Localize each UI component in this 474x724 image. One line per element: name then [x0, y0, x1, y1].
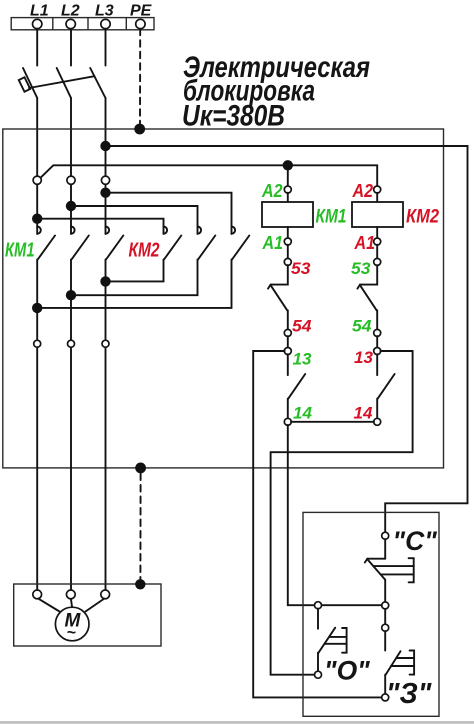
contact KM2 pole 1 blade — [164, 236, 181, 260]
coil KM1 A2 terminal — [284, 186, 291, 193]
contact KM2 NO 14 terminal right — [374, 418, 381, 425]
wire 14 to 14 link — [291, 421, 374, 423]
wire KM2 pole 1 output crossover — [106, 260, 164, 282]
switch QS pole 3 blade — [90, 68, 105, 98]
contact KM1 NC 53 terminal right — [374, 258, 381, 265]
svg-text:54: 54 — [292, 317, 312, 336]
wire PE dashed cabinet to motor — [139, 474, 141, 581]
svg-text:14: 14 — [293, 404, 312, 423]
wire L1 terminal to switch — [36, 29, 38, 66]
wire KM1 pole 3 output — [105, 260, 107, 591]
node L1 branch to KM2 — [32, 214, 42, 224]
wire right 13 to button О — [271, 351, 413, 675]
push button station box — [303, 512, 439, 716]
wire coil KM1 to A1 — [287, 227, 289, 238]
terminal circle L2 — [66, 19, 75, 28]
motor terminal W — [101, 590, 110, 599]
contact KM2 pole 3 seat — [232, 227, 236, 234]
wire 54 to 13 left — [287, 336, 289, 348]
switch QS pole 2 blade — [57, 68, 71, 98]
svg-text:"С": "С" — [393, 526, 438, 556]
button З plunger — [391, 651, 414, 675]
outgoing terminal circle L3 — [102, 340, 109, 347]
svg-text:"О": "О" — [324, 656, 370, 686]
wire KM1 pole 1 output — [36, 260, 38, 591]
svg-text:PE: PE — [130, 3, 153, 20]
node KM2 pole3 to L1 — [32, 303, 42, 313]
coil KM2 box — [352, 202, 403, 227]
wire KM2 pole 3 output crossover — [37, 260, 231, 308]
wire C bottom to З top — [384, 609, 386, 625]
contact KM1 NO blade left column — [288, 354, 305, 418]
svg-text:А2: А2 — [261, 181, 282, 201]
contact KM1 pole 3 seat — [106, 227, 110, 234]
cabinet enclosure box — [3, 129, 444, 468]
wire C bottom to O top — [321, 604, 382, 606]
contact KM1 pole 2 top circle — [67, 176, 75, 184]
svg-text:А2: А2 — [352, 181, 373, 201]
contact KM1 pole 3 top circle — [101, 176, 109, 184]
wire L2 to KM2 pole 2 — [71, 206, 198, 234]
switch QS handle — [19, 77, 30, 91]
svg-text:КМ1: КМ1 — [5, 240, 35, 262]
wire A1 to 53 left — [287, 245, 289, 259]
contact KM2 NC blade left column — [268, 265, 288, 330]
button O plunger — [325, 628, 347, 653]
bottom scan artifact line — [0, 721, 474, 724]
contact KM2 NO 13 terminal right — [374, 348, 381, 355]
wire coil KM1 A2 drop — [287, 165, 289, 186]
PE junction dot on cabinet top — [134, 124, 145, 135]
contact KM2 pole 2 seat — [198, 227, 202, 234]
svg-text:L2: L2 — [61, 3, 80, 20]
terminal circle PE — [136, 19, 145, 28]
node KM2 pole2 to L2 — [66, 290, 76, 300]
PE junction dot on cabinet bottom — [135, 463, 146, 474]
wire motor terminal V to motor — [71, 599, 72, 608]
contact KM2 pole 3 blade — [232, 236, 249, 260]
wire L3 control feed to buttons — [106, 146, 468, 532]
wire L3 circle to contact — [105, 184, 107, 234]
button C NC contact — [365, 539, 385, 602]
switch QS pole 1 blade — [23, 68, 37, 98]
button O NO contact — [318, 609, 335, 672]
wire L3 terminal to switch — [105, 29, 107, 66]
node L3 branch to KM2 — [100, 188, 110, 198]
terminal circle L1 — [33, 19, 42, 28]
wire 54 to 13 right — [376, 336, 378, 348]
svg-text:А1: А1 — [354, 233, 375, 253]
wire motor terminal W to motor — [86, 599, 105, 612]
switch QS linkage bar — [29, 76, 95, 88]
svg-text:~: ~ — [67, 625, 77, 642]
contact KM2 pole 2 blade — [198, 236, 215, 260]
terminal circle L3 — [101, 19, 110, 28]
wire KM2 pole 2 output crossover — [71, 260, 198, 296]
outgoing terminal circle L1 — [34, 340, 41, 347]
contact KM2 pole 1 seat — [164, 227, 168, 234]
coil KM2 A2 terminal — [374, 186, 381, 193]
contact KM2 NC 53 terminal left — [284, 258, 291, 265]
svg-text:КМ2: КМ2 — [406, 207, 439, 228]
wire PE dashed to cabinet — [139, 29, 141, 125]
wire L1 branch to coils — [40, 165, 377, 186]
wire L1 to KM2 pole 1 — [37, 219, 163, 234]
wire left 13 to button З — [253, 351, 382, 697]
wire A2 to coil KM1 — [287, 193, 289, 202]
button O terminal top — [315, 602, 322, 609]
motor M circle — [55, 607, 89, 641]
wire L2 terminal to switch — [70, 29, 72, 66]
terminal strip X1 — [11, 18, 154, 30]
wire L3 to KM2 pole 3 — [106, 193, 232, 234]
svg-text:53: 53 — [291, 259, 311, 278]
contact KM1 pole 1 top circle — [33, 176, 41, 184]
coil KM1 A1 terminal — [284, 238, 291, 245]
wire L1 circle to contact — [36, 184, 38, 234]
outgoing terminal circle L2 — [68, 340, 75, 347]
motor enclosure box — [14, 584, 161, 646]
button C terminal top — [382, 532, 389, 539]
wire L3 switch to KM1 — [105, 98, 107, 177]
wire KM1 pole 2 output — [70, 260, 72, 591]
svg-text:13: 13 — [293, 350, 312, 369]
contact KM1 pole 2 blade — [72, 236, 89, 260]
PE junction dot on motor box — [135, 579, 145, 589]
contact KM1 NO 14 terminal left — [284, 418, 291, 425]
motor terminal U — [33, 590, 42, 599]
button З terminal top — [382, 624, 389, 631]
button З terminal bottom — [382, 694, 389, 701]
svg-text:КМ1: КМ1 — [316, 207, 347, 228]
contact KM1 pole 3 blade — [106, 236, 123, 260]
wire A1 to 53 right — [376, 245, 378, 259]
svg-text:А1: А1 — [262, 233, 283, 253]
wire L2 switch to KM1 — [70, 98, 72, 177]
button C terminal bottom — [382, 602, 389, 609]
button O terminal bottom — [315, 671, 322, 678]
wire coil KM2 to A1 — [376, 227, 378, 238]
svg-text:"З": "З" — [386, 678, 432, 710]
contact KM2 NC 54 terminal left — [284, 329, 291, 336]
wire motor terminal U to motor — [38, 599, 59, 612]
contact KM1 pole 1 seat — [37, 227, 41, 234]
svg-text:L1: L1 — [30, 3, 49, 20]
contact KM1 pole 1 blade — [38, 236, 55, 260]
node L2 branch to KM2 — [66, 201, 76, 211]
svg-text:L3: L3 — [95, 3, 114, 20]
contact KM1 NO 13 terminal left — [284, 348, 291, 355]
svg-text:Uк=380В: Uк=380В — [182, 100, 285, 133]
wire left 14 to stop button — [288, 425, 315, 605]
button C plunger — [374, 558, 414, 582]
node coil feed junction — [283, 160, 293, 170]
coil KM2 A1 terminal — [374, 238, 381, 245]
contact KM1 NC 54 terminal right — [374, 329, 381, 336]
node KM2 pole1 to L3 — [100, 276, 110, 286]
wire L2 circle to contact — [70, 184, 72, 234]
node L3 control branch — [100, 141, 110, 151]
contact KM1 pole 2 seat — [71, 227, 75, 234]
svg-text:53: 53 — [351, 259, 371, 278]
svg-text:КМ2: КМ2 — [129, 240, 160, 262]
contact KM1 NC blade right column — [357, 265, 377, 330]
svg-text:14: 14 — [354, 404, 373, 423]
wire A2 to coil KM2 — [376, 193, 378, 202]
wire L1 switch to KM1 — [36, 98, 38, 177]
motor terminal V — [66, 590, 75, 599]
svg-text:54: 54 — [352, 317, 372, 336]
svg-text:13: 13 — [354, 348, 373, 367]
contact KM2 NO blade right column — [377, 354, 394, 418]
button З NO contact — [385, 631, 400, 694]
coil KM1 box — [262, 202, 313, 227]
